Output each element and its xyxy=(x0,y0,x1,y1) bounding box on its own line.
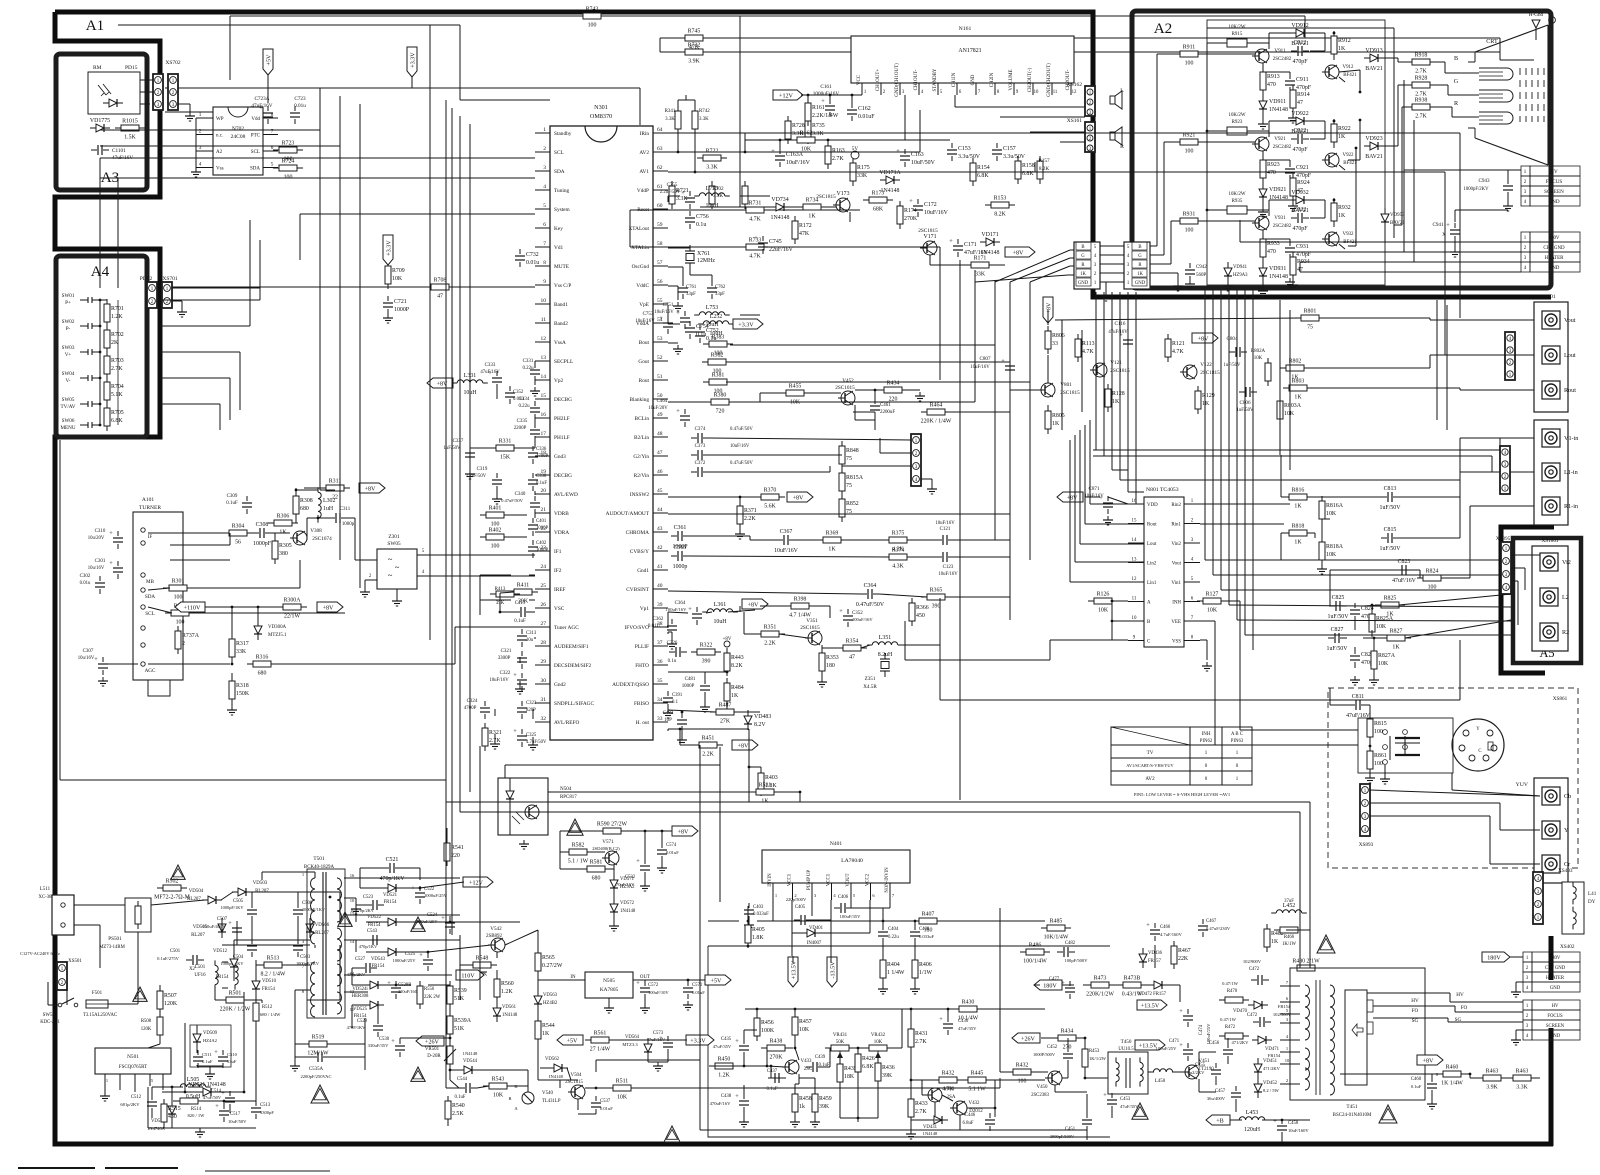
svg-text:B: B xyxy=(1454,56,1458,62)
svg-text:VDD: VDD xyxy=(1147,503,1158,508)
svg-text:GND: GND xyxy=(1078,281,1089,286)
block A5 frame xyxy=(1513,538,1581,663)
capacitor C435 xyxy=(713,1037,749,1057)
H-Gnd symbol xyxy=(1529,12,1556,40)
resistor R458 xyxy=(792,1089,812,1117)
svg-text:47uF/35V: 47uF/35V xyxy=(713,1044,732,1049)
svg-text:1N4148: 1N4148 xyxy=(1269,274,1288,280)
svg-text:R923: R923 xyxy=(1232,120,1243,125)
svg-text:VD401: VD401 xyxy=(809,926,824,931)
svg-text:XS162: XS162 xyxy=(1067,82,1083,88)
svg-text:R445: R445 xyxy=(971,1071,984,1077)
svg-text:C529: C529 xyxy=(357,1019,368,1024)
svg-text:R724: R724 xyxy=(282,159,295,165)
svg-text:C430: C430 xyxy=(958,1019,969,1024)
svg-text:R825A: R825A xyxy=(1376,616,1394,622)
svg-text:R459: R459 xyxy=(819,1096,832,1102)
svg-text:820P: 820P xyxy=(526,708,536,713)
svg-text:1K: 1K xyxy=(731,693,739,699)
svg-text:L1-in: L1-in xyxy=(1564,470,1578,476)
wire t501 bottom xyxy=(290,878,460,1071)
svg-text:1k: 1k xyxy=(799,1104,805,1110)
svg-text:VD300A: VD300A xyxy=(268,625,287,630)
svg-text:Tuning: Tuning xyxy=(554,188,570,194)
svg-text:Rout: Rout xyxy=(1147,523,1157,528)
capacitor C543 xyxy=(359,929,384,949)
capacitor C452 xyxy=(1033,1045,1073,1065)
connector 180V CRT GND HEATER GND (A2) xyxy=(1521,232,1580,272)
svg-text:43: 43 xyxy=(657,526,663,532)
svg-text:2SC1674: 2SC1674 xyxy=(312,536,332,542)
svg-text:51K: 51K xyxy=(454,1026,465,1032)
svg-text:Lout: Lout xyxy=(1147,542,1157,547)
resistor R451 xyxy=(693,736,723,758)
svg-text:R173: R173 xyxy=(872,191,885,197)
svg-text:+: + xyxy=(735,1093,739,1100)
svg-text:IFVO/SVO: IFVO/SVO xyxy=(624,625,649,631)
resistor R381 xyxy=(703,373,733,395)
svg-text:R411: R411 xyxy=(517,583,530,589)
wire chroma row xyxy=(689,536,1010,557)
resistor R436 xyxy=(875,1058,895,1086)
svg-text:1: 1 xyxy=(199,112,202,118)
svg-text:Band2: Band2 xyxy=(554,321,568,327)
svg-text:+8V: +8V xyxy=(748,602,759,608)
svg-text:DECSDEM/SIF2: DECSDEM/SIF2 xyxy=(554,663,592,669)
capacitor C532 xyxy=(614,858,650,887)
label XS702 xyxy=(165,60,181,66)
connector XS402 table xyxy=(1523,952,1580,992)
svg-text:+8V: +8V xyxy=(678,829,689,835)
svg-text:R301: R301 xyxy=(172,579,185,585)
svg-text:BSC24-01N4010M: BSC24-01N4010M xyxy=(1333,1113,1372,1118)
capacitor C319 xyxy=(466,467,502,491)
svg-text:V122: V122 xyxy=(1200,362,1212,368)
capacitor C811 xyxy=(1346,694,1371,719)
svg-text:LA78040: LA78040 xyxy=(841,858,863,864)
connector XS701 strip xyxy=(162,282,172,308)
resistor R463b xyxy=(1507,1069,1537,1091)
svg-text:C411: C411 xyxy=(515,601,526,606)
svg-text:42: 42 xyxy=(657,545,663,551)
svg-text:R311: R311 xyxy=(329,479,342,485)
svg-text:C481: C481 xyxy=(685,677,696,682)
svg-text:1000pF/1KV: 1000pF/1KV xyxy=(220,905,244,910)
svg-text:1N4148: 1N4148 xyxy=(771,215,790,221)
svg-text:C941: C941 xyxy=(1432,222,1444,228)
svg-text:2SC1815: 2SC1815 xyxy=(1060,390,1080,396)
label PD62 xyxy=(140,276,153,282)
capacitor C467 xyxy=(1198,919,1231,937)
svg-text:R318: R318 xyxy=(236,683,249,689)
svg-text:+: + xyxy=(391,1038,395,1045)
svg-text:+8V: +8V xyxy=(723,637,732,642)
svg-text:0.22u: 0.22u xyxy=(518,404,530,409)
svg-text:FOCUS: FOCUS xyxy=(1546,179,1563,185)
wire n401 mid rails xyxy=(708,906,1045,921)
svg-text:2.7K: 2.7K xyxy=(111,366,123,372)
svg-text:XC-38: XC-38 xyxy=(39,895,53,900)
resistor R402 xyxy=(480,528,510,550)
svg-text:C525: C525 xyxy=(405,952,416,957)
svg-text:5.1 1W: 5.1 1W xyxy=(968,1087,986,1093)
wire bus top right xyxy=(1305,16,1534,60)
rca Vout xyxy=(1542,311,1576,329)
wire hout bus xyxy=(680,729,761,802)
svg-text:0.01uF: 0.01uF xyxy=(858,114,875,120)
capacitor C373 xyxy=(691,444,750,460)
svg-text:R818A: R818A xyxy=(1326,544,1344,550)
svg-text:V433: V433 xyxy=(801,1059,813,1064)
svg-text:+: + xyxy=(419,952,423,959)
svg-text:10uF/16V: 10uF/16V xyxy=(654,310,674,315)
svg-text:20: 20 xyxy=(541,488,547,494)
svg-text:C391: C391 xyxy=(672,693,683,698)
resistor R815 xyxy=(1367,714,1387,742)
rca R1-in xyxy=(1542,497,1578,515)
svg-text:12: 12 xyxy=(541,336,547,342)
wire key bus xyxy=(300,214,535,260)
wire bus 180v fly xyxy=(1034,945,1180,1002)
svg-text:CRT GND: CRT GND xyxy=(1545,966,1566,971)
capacitor C325 xyxy=(513,728,547,747)
connector YUV shell xyxy=(1516,778,1568,883)
svg-text:57: 57 xyxy=(657,260,663,266)
svg-text:T3.15AL250VAC: T3.15AL250VAC xyxy=(83,1013,117,1018)
capacitor C458 xyxy=(1273,1118,1309,1137)
capacitor C530 xyxy=(368,1037,405,1057)
svg-text:GND: GND xyxy=(1135,281,1146,286)
svg-text:10K: 10K xyxy=(799,1027,810,1033)
svg-text:C401: C401 xyxy=(536,519,547,524)
svg-text:XS1801: XS1801 xyxy=(1541,538,1558,544)
svg-text:470pF: 470pF xyxy=(1296,173,1312,179)
svg-text:+: + xyxy=(636,858,640,865)
resistor R163 xyxy=(825,141,845,169)
capacitor C826 xyxy=(1350,649,1377,667)
resistor R731 xyxy=(740,201,770,223)
capacitor C340 xyxy=(501,492,540,514)
svg-text:+8V: +8V xyxy=(738,743,749,749)
resistor R728 xyxy=(785,116,805,144)
warning triangle t501 xyxy=(311,1085,329,1103)
svg-text:PS501: PS501 xyxy=(108,936,122,942)
capacitor C507 xyxy=(203,917,243,939)
svg-text:R728: R728 xyxy=(792,123,805,129)
svg-text:10P: 10P xyxy=(664,718,672,723)
resistor R802A xyxy=(1265,358,1271,386)
capacitor C402 xyxy=(528,540,549,558)
svg-text:5.6K: 5.6K xyxy=(764,504,776,510)
svg-text:33: 33 xyxy=(1052,341,1058,347)
resistor R511 xyxy=(607,1079,637,1101)
svg-text:100uF/10V: 100uF/10V xyxy=(648,990,669,995)
svg-text:V+: V+ xyxy=(65,352,72,358)
svg-text:VD452: VD452 xyxy=(1263,1081,1278,1086)
svg-text:FR154: FR154 xyxy=(216,975,230,980)
resistor R543 xyxy=(483,1077,513,1099)
svg-text:R560: R560 xyxy=(501,981,514,987)
resistor R366 xyxy=(909,598,929,626)
rca Vi2 xyxy=(1540,553,1571,571)
svg-text:HZ4B2: HZ4B2 xyxy=(543,1001,558,1006)
svg-text:N504: N504 xyxy=(560,786,572,792)
coil L361 xyxy=(702,602,738,625)
svg-text:+12V: +12V xyxy=(469,880,484,886)
svg-text:10K: 10K xyxy=(392,276,403,282)
svg-text:A2: A2 xyxy=(1154,20,1173,37)
svg-text:10: 10 xyxy=(1034,90,1039,95)
svg-text:R824: R824 xyxy=(1426,569,1439,575)
svg-text:H. out: H. out xyxy=(636,720,650,726)
svg-text:R473: R473 xyxy=(1094,976,1107,982)
resistor R121 xyxy=(1165,334,1185,362)
svg-text:5V: 5V xyxy=(852,146,859,152)
svg-text:100: 100 xyxy=(1374,761,1383,767)
wire bus v1in row xyxy=(1093,438,1500,472)
svg-text:100: 100 xyxy=(714,389,723,395)
svg-text:10uH: 10uH xyxy=(713,619,727,625)
svg-text:34: 34 xyxy=(657,697,663,703)
capacitor C525 xyxy=(393,952,434,971)
svg-text:IREF: IREF xyxy=(554,587,566,593)
transistor V173 2SC1815 xyxy=(816,191,850,212)
svg-text:2SC1815: 2SC1815 xyxy=(816,194,836,200)
svg-text:2: 2 xyxy=(199,129,202,135)
svg-text:50K: 50K xyxy=(836,1040,845,1045)
capacitor C403 xyxy=(744,903,769,930)
svg-text:R816: R816 xyxy=(1292,488,1305,494)
wire a2 rgb to crt xyxy=(1384,58,1479,225)
capacitor C334 xyxy=(518,397,540,419)
svg-text:R308: R308 xyxy=(300,498,313,504)
zener VD509 xyxy=(193,1028,218,1048)
resistor R306 xyxy=(268,514,298,536)
svg-text:120K: 120K xyxy=(141,1027,152,1032)
svg-text:R827A: R827A xyxy=(1378,653,1396,659)
svg-text:0.1u: 0.1u xyxy=(706,336,716,342)
svg-text:3.3K: 3.3K xyxy=(812,131,824,137)
svg-text:R541: R541 xyxy=(451,845,464,851)
svg-text:R467: R467 xyxy=(1178,948,1191,954)
svg-text:INH: INH xyxy=(1172,601,1181,606)
resistor R443 xyxy=(724,648,744,676)
svg-text:HV: HV xyxy=(1552,1004,1559,1009)
svg-text:CH1IN: CH1IN xyxy=(952,72,957,87)
svg-text:N702: N702 xyxy=(232,126,244,132)
svg-text:FO: FO xyxy=(1461,1005,1468,1011)
svg-text:47uF/35V: 47uF/35V xyxy=(958,1026,977,1031)
svg-text:F501: F501 xyxy=(92,991,103,996)
svg-text:46: 46 xyxy=(657,469,663,475)
svg-text:Vout: Vout xyxy=(1564,318,1576,324)
capacitor C523 xyxy=(350,895,384,913)
warning triangle ps2 xyxy=(133,987,147,1001)
svg-text:C460: C460 xyxy=(1411,1077,1422,1082)
transistor V451 TT2190 xyxy=(1182,1059,1214,1079)
svg-text:C732: C732 xyxy=(526,252,539,258)
svg-text:1K: 1K xyxy=(542,1031,550,1037)
svg-text:VOLUME: VOLUME xyxy=(1009,69,1014,90)
svg-text:4.7K: 4.7K xyxy=(749,254,761,260)
warning triangle fly1 xyxy=(1317,935,1335,953)
capacitor C755 xyxy=(660,183,695,209)
svg-text:C325: C325 xyxy=(526,733,537,738)
svg-text:SCL: SCL xyxy=(554,150,564,156)
svg-text:C336: C336 xyxy=(536,447,547,452)
svg-text:C163A: C163A xyxy=(786,152,804,158)
svg-text:1.2K: 1.2K xyxy=(501,989,513,995)
resistor R175 xyxy=(850,158,870,186)
svg-text:FR154: FR154 xyxy=(384,900,398,905)
svg-text:R745: R745 xyxy=(688,29,701,35)
svg-text:0.01u: 0.01u xyxy=(294,103,306,109)
svg-text:R304: R304 xyxy=(232,524,245,530)
svg-text:820 / 1W: 820 / 1W xyxy=(188,1113,206,1118)
resistor R304 xyxy=(223,524,253,546)
resistor R331 xyxy=(490,439,520,461)
svg-text:G: G xyxy=(1081,254,1085,259)
svg-text:C523: C523 xyxy=(363,895,374,900)
svg-text:+3.3V: +3.3V xyxy=(690,1038,706,1044)
SAW filter Z301 SW905 xyxy=(365,534,430,606)
svg-text:11: 11 xyxy=(541,317,547,323)
svg-text:1000P: 1000P xyxy=(394,307,410,313)
svg-text:Gout: Gout xyxy=(638,359,649,365)
svg-text:R918: R918 xyxy=(1415,53,1428,59)
resistor R581 xyxy=(581,860,611,882)
transistor V801 2SC1815 xyxy=(1038,382,1080,397)
svg-text:SW05: SW05 xyxy=(62,397,75,403)
svg-text:+: + xyxy=(1273,1118,1277,1125)
resistor R484 xyxy=(724,678,744,706)
capacitor C163 xyxy=(896,148,935,167)
svg-text:10uF/20V: 10uF/20V xyxy=(648,406,668,411)
capacitor C943 xyxy=(1463,170,1513,211)
potentiometer VR432 xyxy=(863,1033,893,1058)
diode VD562 xyxy=(545,1057,568,1079)
svg-text:45: 45 xyxy=(657,488,663,494)
svg-text:GND(CH1OUT): GND(CH1OUT) xyxy=(895,63,900,97)
svg-text:10K: 10K xyxy=(1284,411,1295,417)
svg-text:10uF/16V: 10uF/16V xyxy=(938,572,958,577)
svg-text:HZ9A3: HZ9A3 xyxy=(1233,273,1248,278)
svg-text:2.2K: 2.2K xyxy=(764,641,776,647)
svg-text:VD472 FR157: VD472 FR157 xyxy=(1138,992,1167,997)
zener VD564 xyxy=(622,1035,652,1058)
svg-text:R935: R935 xyxy=(1232,199,1243,204)
wire r731 runs xyxy=(630,210,940,247)
resistor R406 xyxy=(912,955,933,983)
svg-text:Vout: Vout xyxy=(1172,562,1182,567)
svg-text:C338: C338 xyxy=(536,474,547,479)
svg-text:47uF/16V: 47uF/16V xyxy=(1108,330,1128,335)
wire hv labels xyxy=(1411,998,1419,1024)
resistor R322 xyxy=(691,643,721,665)
resistor R300A xyxy=(277,598,307,620)
zener VD300A xyxy=(254,620,287,640)
svg-text:R732: R732 xyxy=(688,43,701,49)
svg-text:V571: V571 xyxy=(602,839,614,845)
resistor R743 xyxy=(577,7,607,29)
DIN connector XS861 xyxy=(1358,718,1504,773)
svg-text:~: ~ xyxy=(395,562,400,572)
svg-text:36u/400V: 36u/400V xyxy=(1207,1096,1226,1101)
svg-text:L: L xyxy=(1120,88,1124,94)
capacitor C517 xyxy=(215,1103,247,1124)
power flag +8V vp1 xyxy=(742,599,768,609)
svg-text:1: 1 xyxy=(775,893,777,898)
wire bus top av xyxy=(745,133,1460,355)
svg-text:HZ4A2: HZ4A2 xyxy=(203,1038,218,1043)
svg-text:N301: N301 xyxy=(594,105,608,111)
svg-text:RL207: RL207 xyxy=(191,933,205,938)
svg-text:180V: 180V xyxy=(1487,955,1501,961)
svg-text:10: 10 xyxy=(350,898,355,903)
svg-text:470p/2KV: 470p/2KV xyxy=(347,972,366,977)
svg-text:VD734: VD734 xyxy=(771,197,788,203)
svg-text:1000P: 1000P xyxy=(536,526,549,531)
svg-text:YUV: YUV xyxy=(1516,782,1529,788)
svg-text:C921: C921 xyxy=(1296,165,1309,171)
svg-text:AV2: AV2 xyxy=(639,150,649,156)
wire bus c811 xyxy=(1330,688,1371,774)
resistor R311 xyxy=(320,479,350,501)
svg-text:680: 680 xyxy=(300,506,309,512)
diode VD511 xyxy=(188,1082,226,1096)
svg-text:XS861: XS861 xyxy=(1553,696,1568,702)
resistor R374 xyxy=(883,548,913,570)
svg-text:R463: R463 xyxy=(1516,1069,1529,1075)
svg-text:VD524i: VD524i xyxy=(352,987,368,992)
svg-text:R582: R582 xyxy=(572,843,585,849)
capacitor C405 xyxy=(786,897,812,925)
svg-text:180V: 180V xyxy=(1550,956,1561,961)
svg-text:150K: 150K xyxy=(236,691,250,697)
svg-text:C439: C439 xyxy=(815,1055,826,1060)
speaker left xyxy=(1110,88,1124,109)
resistor R560 xyxy=(494,974,514,1002)
svg-text:V171: V171 xyxy=(923,234,936,240)
resistor R825 xyxy=(1375,596,1405,618)
svg-text:R511: R511 xyxy=(616,1079,629,1085)
resistor R502 xyxy=(154,879,190,901)
svg-text:VD564: VD564 xyxy=(625,1035,640,1040)
rca Rout xyxy=(1542,381,1576,399)
connector XS1801 shell xyxy=(1532,538,1568,651)
svg-text:47uF/50V: 47uF/50V xyxy=(203,1095,222,1100)
svg-text:33pF: 33pF xyxy=(715,292,725,297)
wire XS702 line xyxy=(165,87,640,89)
diode VD512 xyxy=(213,949,238,980)
svg-text:R331: R331 xyxy=(499,439,512,445)
capacitor C153 xyxy=(947,143,981,161)
resistor R456 xyxy=(754,1013,775,1041)
resistor R433 xyxy=(908,1094,928,1122)
wire 3v3 xyxy=(538,990,687,1080)
svg-text:10uF/16V: 10uF/16V xyxy=(774,548,799,554)
svg-text:BAV21: BAV21 xyxy=(1365,154,1383,160)
rca L1-in xyxy=(1542,463,1578,481)
svg-text:VD431: VD431 xyxy=(923,1125,938,1130)
svg-text:1000P: 1000P xyxy=(682,684,695,689)
svg-text:0.47uF/50V: 0.47uF/50V xyxy=(730,461,753,466)
wire audout long xyxy=(668,513,1010,515)
svg-text:10: 10 xyxy=(1132,616,1137,621)
svg-text:C307: C307 xyxy=(83,649,94,654)
capacitor C871 xyxy=(1084,486,1128,525)
svg-text:10: 10 xyxy=(1285,1058,1290,1063)
